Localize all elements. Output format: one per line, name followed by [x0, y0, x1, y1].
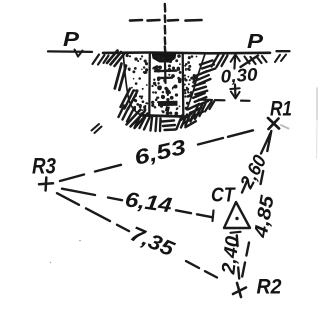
soil hatching below pit g6	[191, 104, 206, 122]
dimension arrow up head	[231, 55, 240, 62]
faint scan streak right edge	[316, 88, 318, 120]
surface hatching right of dimension arrow, long stroke	[241, 56, 259, 68]
ground line main segment	[103, 51, 270, 54]
soil hatching below pit g2	[135, 114, 150, 130]
tick below CT (start of 2,40 line)	[231, 232, 241, 233]
soil hatching right chain cluster r1	[201, 60, 213, 64]
svg-text:R3: R3	[32, 154, 56, 179]
dashed line R1 to CT	[242, 133, 271, 193]
soil hatching below pit g3 vertical strokes	[151, 118, 161, 132]
soil hatching lower-left cluster	[127, 110, 148, 129]
marker stem tick 2	[159, 76, 173, 79]
dimension arrow down shaft	[234, 85, 237, 97]
tick at CT left (end of 6,14 line)	[213, 211, 214, 222]
large stipple blobs inside column	[155, 65, 177, 99]
backfill stipple left band	[126, 54, 149, 112]
soil hatching right chain cluster r4	[193, 93, 205, 98]
soil hatching below pit g7	[205, 100, 215, 112]
centerline horizontal dashed axis	[130, 19, 202, 22]
depth dashed reference line	[199, 100, 250, 101]
point R3 cross mark	[39, 178, 53, 191]
soil hatching below pit g5	[177, 113, 191, 130]
soil hatching right chain cluster r6	[181, 114, 191, 120]
soil hatching right chain cluster r5	[188, 104, 199, 109]
dashed line R1 to R2	[242, 131, 271, 277]
marker stem	[164, 64, 167, 84]
soil hatching upper-left cluster	[107, 51, 124, 67]
svg-text:R1: R1	[270, 98, 292, 121]
monument column left wall	[148, 53, 151, 116]
centerline vertical dashed axis	[164, 4, 167, 52]
svg-text:P: P	[247, 31, 264, 53]
monument column bottom line	[142, 115, 189, 116]
tiny scan speck 1	[79, 240, 81, 242]
station CT center dot	[235, 217, 238, 220]
point R1 x mark	[268, 118, 279, 129]
svg-text:0,30: 0,30	[220, 64, 258, 87]
dimension arrow up shaft	[233, 56, 236, 69]
monument column right wall	[182, 53, 185, 114]
soil hatching right chain cluster r2	[196, 71, 208, 76]
svg-text:P: P	[63, 29, 80, 51]
station CT triangle	[224, 202, 250, 228]
concrete stipple inside column	[151, 54, 182, 115]
backfill stipple right band	[183, 55, 201, 110]
surface hatching right of dimension arrow, short strokes	[245, 56, 267, 64]
lower benchmark T-mark stem	[167, 107, 168, 112]
svg-text:CT: CT	[211, 185, 236, 207]
soil hatching left middle cluster	[121, 89, 137, 110]
soil hatching left of pit, surface row	[93, 55, 109, 65]
tiny scan speck 2	[50, 262, 51, 263]
soil hatching below pit g1	[119, 106, 134, 122]
soil hatching below pit g4 horizontal strokes	[162, 121, 176, 131]
pit outer boundary left	[123, 54, 142, 116]
lower benchmark T-mark bar	[158, 101, 178, 106]
ground line left segment	[48, 50, 92, 53]
marker stem tick 1	[155, 69, 177, 72]
marker cap (black head)	[152, 52, 177, 62]
dashed line R3 to CT	[62, 189, 212, 218]
dashed line R3 to R2	[57, 193, 217, 277]
dashed line CT to R2	[237, 236, 239, 279]
dimension arrow down tick	[230, 87, 239, 90]
soil hatching right chain cluster r3	[193, 83, 205, 87]
soil hatching far lower-left small strokes	[92, 124, 102, 133]
pencil smudge right of R1	[281, 125, 289, 129]
dashed line R3 to R1	[60, 130, 253, 181]
dimension arrow down head	[231, 92, 240, 99]
surface hatching far right strokes	[275, 55, 286, 63]
soil hatching left long steep strokes	[115, 64, 126, 91]
ground line right dash	[277, 50, 290, 52]
pit outer boundary right	[187, 54, 206, 111]
check mark under left ground line	[75, 50, 83, 57]
point R2 cross mark	[233, 283, 246, 297]
svg-text:R2: R2	[257, 276, 282, 299]
surface hatching left of dimension arrow	[212, 55, 228, 68]
